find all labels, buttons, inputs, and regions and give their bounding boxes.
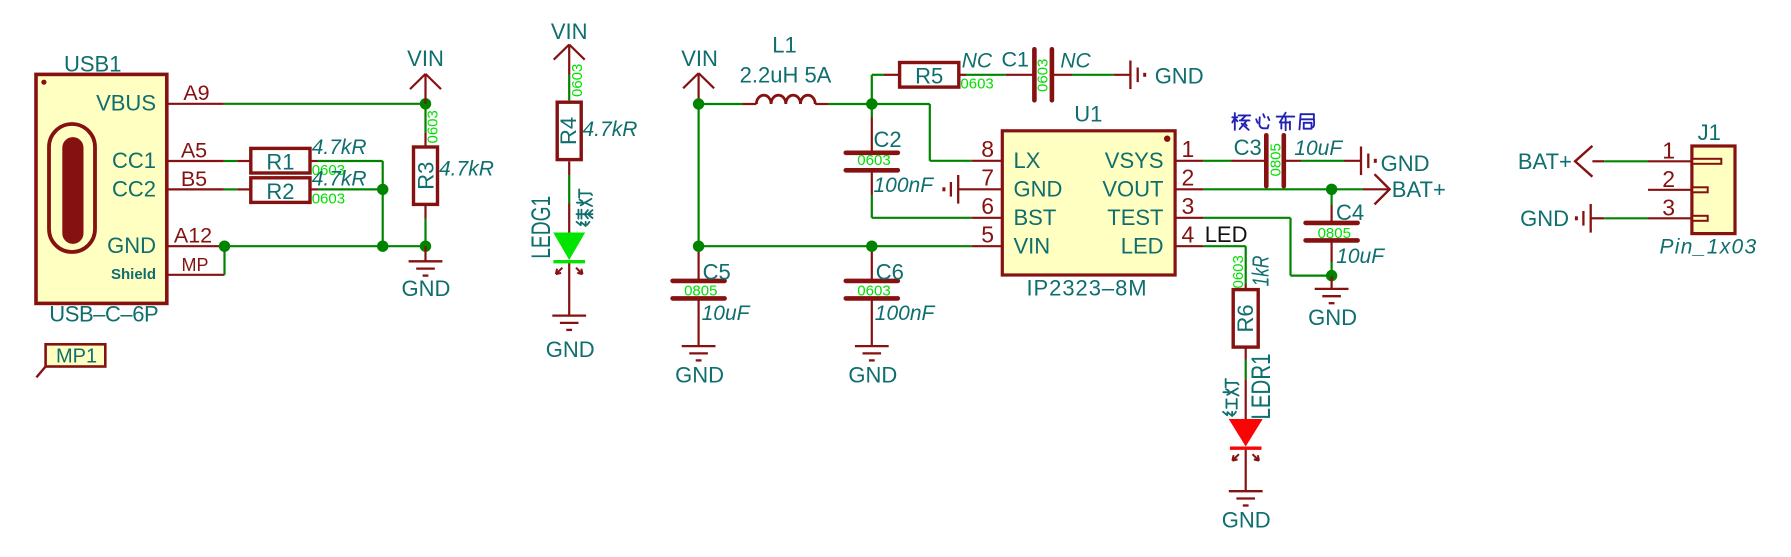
svg-text:LEDR1: LEDR1 bbox=[1246, 354, 1276, 420]
svg-text:4.7kR: 4.7kR bbox=[439, 158, 494, 181]
svg-text:BAT+: BAT+ bbox=[1392, 177, 1446, 202]
svg-text:C2: C2 bbox=[874, 127, 902, 152]
svg-text:0603: 0603 bbox=[857, 152, 890, 169]
svg-text:GND: GND bbox=[675, 363, 724, 388]
svg-text:0805: 0805 bbox=[1268, 143, 1285, 176]
svg-text:1kR: 1kR bbox=[1248, 256, 1274, 287]
svg-text:4: 4 bbox=[1182, 221, 1195, 247]
svg-text:C6: C6 bbox=[876, 260, 904, 285]
svg-text:CC2: CC2 bbox=[112, 176, 156, 201]
svg-text:B5: B5 bbox=[181, 167, 207, 191]
svg-text:3: 3 bbox=[1662, 195, 1675, 221]
svg-text:100nF: 100nF bbox=[874, 174, 935, 197]
svg-text:L1: L1 bbox=[772, 32, 796, 57]
svg-text:C3: C3 bbox=[1234, 135, 1262, 160]
svg-text:0603: 0603 bbox=[425, 110, 442, 143]
svg-text:100nF: 100nF bbox=[875, 302, 936, 325]
svg-text:J1: J1 bbox=[1698, 120, 1721, 145]
svg-text:5: 5 bbox=[981, 221, 994, 247]
svg-text:10uF: 10uF bbox=[702, 302, 751, 325]
svg-text:R1: R1 bbox=[266, 149, 294, 174]
svg-text:2: 2 bbox=[1182, 165, 1195, 191]
svg-text:A5: A5 bbox=[181, 138, 207, 162]
svg-text:GND: GND bbox=[1381, 151, 1430, 176]
svg-text:Pin_1x03: Pin_1x03 bbox=[1660, 236, 1758, 259]
svg-text:R5: R5 bbox=[915, 64, 943, 89]
svg-text:NC: NC bbox=[962, 50, 993, 73]
svg-text:CC1: CC1 bbox=[112, 148, 156, 173]
svg-text:NC: NC bbox=[1060, 49, 1091, 72]
svg-text:LX: LX bbox=[1014, 148, 1041, 173]
svg-text:VOUT: VOUT bbox=[1102, 177, 1163, 202]
svg-text:USB–C–6P: USB–C–6P bbox=[49, 302, 158, 327]
svg-text:4.7kR: 4.7kR bbox=[583, 118, 638, 141]
svg-text:GND: GND bbox=[1222, 508, 1271, 533]
svg-text:C1: C1 bbox=[1002, 48, 1029, 72]
svg-text:R3: R3 bbox=[414, 162, 439, 190]
svg-text:0603: 0603 bbox=[1035, 59, 1052, 92]
svg-text:GND: GND bbox=[1014, 177, 1063, 202]
svg-text:0603: 0603 bbox=[960, 75, 993, 92]
svg-text:GND: GND bbox=[546, 337, 595, 362]
svg-text:8: 8 bbox=[981, 136, 994, 162]
svg-text:GND: GND bbox=[402, 276, 451, 301]
svg-text:GND: GND bbox=[1155, 63, 1204, 88]
svg-text:VSYS: VSYS bbox=[1105, 148, 1164, 173]
svg-text:R6: R6 bbox=[1233, 304, 1258, 332]
svg-text:4.7kR: 4.7kR bbox=[312, 136, 367, 159]
svg-text:IP2323–8M: IP2323–8M bbox=[1027, 275, 1148, 300]
svg-text:VBUS: VBUS bbox=[96, 90, 156, 115]
svg-text:GND: GND bbox=[1520, 206, 1569, 231]
svg-text:0603: 0603 bbox=[312, 190, 345, 207]
svg-text:6: 6 bbox=[981, 193, 994, 219]
svg-text:VIN: VIN bbox=[1014, 233, 1051, 258]
svg-text:MP: MP bbox=[182, 255, 209, 275]
svg-text:C4: C4 bbox=[1336, 200, 1364, 225]
svg-text:7: 7 bbox=[981, 165, 994, 191]
svg-text:0603: 0603 bbox=[857, 283, 890, 300]
svg-text:VIN: VIN bbox=[407, 46, 444, 71]
svg-text:10uF: 10uF bbox=[1294, 137, 1343, 160]
svg-text:VIN: VIN bbox=[551, 19, 588, 44]
svg-text:0805: 0805 bbox=[1318, 225, 1351, 242]
svg-text:LEDG1: LEDG1 bbox=[526, 196, 556, 259]
svg-text:A9: A9 bbox=[183, 81, 209, 105]
svg-text:1: 1 bbox=[1182, 136, 1195, 162]
svg-text:2: 2 bbox=[1662, 166, 1675, 192]
svg-text:1: 1 bbox=[1662, 138, 1675, 164]
svg-text:BST: BST bbox=[1014, 205, 1057, 230]
svg-text:MP1: MP1 bbox=[56, 345, 97, 367]
svg-text:A12: A12 bbox=[174, 224, 212, 248]
svg-text:GND: GND bbox=[848, 363, 897, 388]
svg-text:GND: GND bbox=[1308, 305, 1357, 330]
svg-text:BAT+: BAT+ bbox=[1518, 149, 1572, 174]
svg-text:TEST: TEST bbox=[1107, 205, 1163, 230]
svg-text:R4: R4 bbox=[556, 117, 581, 145]
svg-text:USB1: USB1 bbox=[64, 52, 121, 77]
svg-text:U1: U1 bbox=[1074, 101, 1102, 126]
svg-text:LED: LED bbox=[1121, 233, 1164, 258]
svg-text:C5: C5 bbox=[703, 260, 731, 285]
svg-text:0603: 0603 bbox=[569, 64, 586, 97]
svg-text:VIN: VIN bbox=[681, 46, 718, 71]
svg-text:R2: R2 bbox=[266, 179, 294, 204]
svg-text:2.2uH 5A: 2.2uH 5A bbox=[740, 63, 832, 88]
svg-text:10uF: 10uF bbox=[1336, 245, 1385, 268]
svg-text:LED: LED bbox=[1205, 222, 1248, 247]
svg-text:3: 3 bbox=[1182, 193, 1195, 219]
svg-text:0805: 0805 bbox=[684, 283, 717, 300]
svg-text:Shield: Shield bbox=[111, 266, 156, 283]
svg-text:GND: GND bbox=[107, 233, 156, 258]
svg-text:4.7kR: 4.7kR bbox=[312, 167, 367, 190]
svg-text:0603: 0603 bbox=[1230, 255, 1247, 288]
